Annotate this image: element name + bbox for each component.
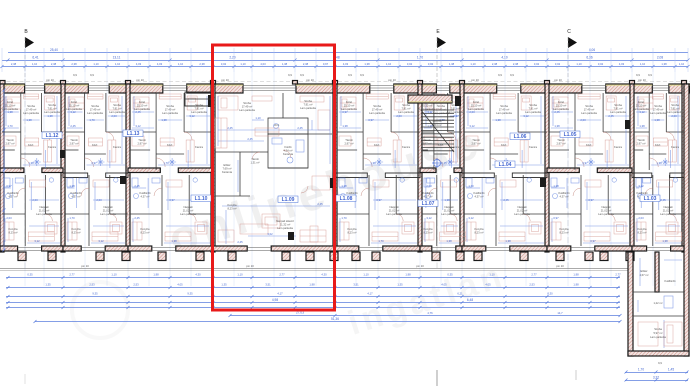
svg-text:Konyha: Konyha [347, 227, 357, 231]
svg-text:1,38: 1,38 [28, 161, 34, 165]
svg-text:9,9: 9,9 [300, 73, 304, 77]
svg-text:7,91 m²: 7,91 m² [670, 107, 679, 111]
svg-text:3,02: 3,02 [534, 62, 540, 66]
svg-text:Kerámia: Kerámia [222, 170, 233, 174]
svg-text:6,41: 6,41 [32, 56, 38, 60]
svg-text:2,08: 2,08 [657, 56, 663, 60]
unit interior 1 [84, 93, 86, 170]
svg-text:25,10 m²: 25,10 m² [556, 104, 567, 108]
svg-text:2,03: 2,03 [111, 114, 117, 118]
window opening [370, 86, 394, 91]
window opening [243, 86, 296, 91]
svg-text:1,98: 1,98 [405, 273, 411, 277]
svg-text:7,91 m²: 7,91 m² [47, 107, 56, 111]
wall segment [296, 84, 370, 93]
svg-text:Nappali: Nappali [103, 205, 113, 209]
svg-text:1,70: 1,70 [7, 124, 13, 128]
svg-text:Lam.parketta: Lam.parketta [581, 111, 597, 115]
svg-text:Lam.parketta: Lam.parketta [36, 212, 52, 216]
svg-text:Kamra: Kamra [671, 145, 679, 149]
svg-text:Lam.parketta: Lam.parketta [23, 111, 39, 115]
svg-text:Lam.parketta: Lam.parketta [87, 111, 103, 115]
svg-text:Lam.parketta: Lam.parketta [660, 212, 676, 216]
svg-text:9,35: 9,35 [187, 292, 193, 296]
svg-text:4,17: 4,17 [367, 292, 373, 296]
svg-text:4,05: 4,05 [177, 283, 183, 287]
svg-text:0,97: 0,97 [368, 118, 374, 122]
wall segment [606, 84, 653, 93]
svg-text:4,67 m²: 4,67 m² [639, 273, 648, 277]
bottom dimension rows [6, 277, 620, 279]
svg-text:Nappali: Nappali [39, 205, 49, 209]
svg-text:Konyha: Konyha [8, 227, 18, 231]
crop marks [436, 370, 438, 386]
svg-text:Kádfürdő: Kádfürdő [423, 191, 434, 195]
wall segment [394, 84, 437, 93]
svg-text:17,49 m²: 17,49 m² [165, 108, 176, 112]
svg-text:21,32 m²: 21,32 m² [280, 223, 291, 227]
svg-text:1,10: 1,10 [237, 273, 243, 277]
svg-text:8,23 m²: 8,23 m² [474, 231, 483, 235]
section marker B [24, 29, 34, 268]
svg-text:9,9: 9,9 [658, 361, 662, 365]
svg-text:2,97 m²: 2,97 m² [69, 142, 78, 146]
window opening [163, 86, 187, 91]
svg-text:1,10: 1,10 [111, 273, 117, 277]
svg-text:1,38: 1,38 [161, 118, 167, 122]
svg-text:Szoba: Szoba [27, 104, 35, 108]
svg-text:25,10 m²: 25,10 m² [5, 104, 16, 108]
svg-text:1,10: 1,10 [115, 62, 121, 66]
svg-text:2,45: 2,45 [134, 184, 140, 188]
middle spine walls [0, 168, 24, 173]
svg-text:9,9: 9,9 [648, 73, 652, 77]
svg-text:2,97 m²: 2,97 m² [344, 142, 353, 146]
svg-text:2,03: 2,03 [396, 114, 402, 118]
svg-text:3,02: 3,02 [428, 62, 434, 66]
wall segment [450, 84, 497, 93]
svg-text:4,30: 4,30 [321, 273, 327, 277]
svg-text:Közl.: Közl. [655, 143, 661, 147]
svg-text:Konyha: Konyha [474, 227, 484, 231]
svg-text:3,12: 3,12 [468, 216, 474, 220]
svg-text:2,45: 2,45 [70, 124, 76, 128]
svg-text:Tároló: Tároló [138, 138, 146, 142]
svg-text:Kádfürdő: Kádfürdő [347, 191, 358, 195]
svg-text:Lam.parketta: Lam.parketta [66, 107, 82, 111]
svg-text:3,02: 3,02 [267, 232, 273, 236]
svg-text:1,98: 1,98 [153, 273, 159, 277]
svg-text:pm 10: pm 10 [556, 264, 564, 268]
svg-text:3,12: 3,12 [426, 216, 432, 220]
svg-text:Lam.parketta: Lam.parketta [162, 111, 178, 115]
svg-text:7,91 m²: 7,91 m² [303, 103, 312, 107]
svg-text:2,53: 2,53 [133, 283, 139, 287]
svg-text:2,77: 2,77 [279, 273, 285, 277]
svg-text:1,38: 1,38 [554, 124, 560, 128]
svg-text:0,97: 0,97 [590, 239, 596, 243]
svg-text:Lam.parketta: Lam.parketta [633, 107, 649, 111]
svg-text:Lam.parketta: Lam.parketta [386, 212, 402, 216]
svg-text:0,97: 0,97 [6, 184, 12, 188]
svg-text:8,23 m²: 8,23 m² [140, 231, 149, 235]
section marker C [567, 29, 577, 268]
svg-text:Szoba: Szoba [166, 104, 174, 108]
svg-text:Fotel: Fotel [473, 100, 479, 104]
svg-text:2,38: 2,38 [303, 62, 309, 66]
window opening [25, 86, 45, 91]
svg-text:9,9: 9,9 [288, 73, 292, 77]
svg-text:Lam.parketta: Lam.parketta [239, 108, 255, 112]
svg-text:4,37 m²: 4,37 m² [140, 195, 149, 199]
svg-text:3,12: 3,12 [638, 184, 644, 188]
svg-text:2,38: 2,38 [51, 62, 57, 66]
svg-text:Szoba: Szoba [113, 103, 121, 107]
svg-text:3,02: 3,02 [221, 62, 227, 66]
svg-text:Szoba: Szoba [654, 327, 662, 331]
svg-text:Lam.parketta: Lam.parketta [398, 110, 414, 114]
svg-text:Szoba: Szoba [654, 104, 662, 108]
svg-text:2,38: 2,38 [492, 62, 498, 66]
svg-text:9,9: 9,9 [73, 73, 77, 77]
svg-text:Kamra: Kamra [614, 145, 622, 149]
svg-text:4,05: 4,05 [485, 283, 491, 287]
svg-text:2,77: 2,77 [69, 273, 75, 277]
svg-text:9,9: 9,9 [510, 73, 514, 77]
svg-text:1,38: 1,38 [282, 62, 288, 66]
svg-text:3,51: 3,51 [265, 283, 271, 287]
svg-text:3,02: 3,02 [407, 62, 413, 66]
entrance porch wall [408, 95, 452, 103]
svg-text:7,91 m²: 7,91 m² [613, 107, 622, 111]
svg-text:4,37 m²: 4,37 m² [71, 195, 80, 199]
svg-text:Konyha: Konyha [227, 203, 237, 207]
svg-text:L1.07: L1.07 [422, 201, 435, 207]
stairwell treads [421, 110, 454, 152]
svg-text:1,10: 1,10 [386, 62, 392, 66]
svg-text:14,7: 14,7 [557, 311, 563, 315]
svg-text:51,36: 51,36 [331, 317, 339, 321]
svg-text:1,45: 1,45 [668, 368, 674, 372]
svg-text:4,03: 4,03 [343, 62, 349, 66]
svg-text:1,38: 1,38 [342, 124, 348, 128]
svg-text:Lam.parketta: Lam.parketta [300, 106, 316, 110]
svg-text:Lam.parketta: Lam.parketta [610, 110, 626, 114]
svg-text:21,02 m²: 21,02 m² [183, 209, 194, 213]
svg-text:3,02: 3,02 [555, 62, 561, 66]
exterior wall bottom with openings [0, 246, 18, 251]
svg-text:3,12: 3,12 [469, 124, 475, 128]
svg-text:25,10 m²: 25,10 m² [636, 104, 647, 108]
svg-text:0,97: 0,97 [588, 198, 594, 202]
svg-text:0,35: 0,35 [447, 273, 453, 277]
svg-text:Közl.: Közl. [167, 143, 173, 147]
svg-text:2,45: 2,45 [247, 137, 253, 141]
unit L1.09 interior [282, 93, 284, 118]
svg-text:8,23 m²: 8,23 m² [637, 231, 646, 235]
svg-text:Konyha: Konyha [637, 227, 647, 231]
svg-text:1,38: 1,38 [656, 161, 662, 165]
svg-text:Lam.parketta: Lam.parketta [369, 111, 385, 115]
svg-text:Tároló: Tároló [423, 138, 431, 142]
svg-text:8,23 m²: 8,23 m² [423, 231, 432, 235]
svg-text:1,98: 1,98 [573, 283, 579, 287]
svg-text:21,02 m²: 21,02 m² [39, 209, 50, 213]
svg-text:6,36: 6,36 [586, 56, 592, 60]
svg-text:pm 10: pm 10 [246, 264, 254, 268]
red highlight rectangle [213, 45, 335, 310]
svg-text:2,97 m²: 2,97 m² [471, 142, 480, 146]
svg-text:7,91 m²: 7,91 m² [112, 107, 121, 111]
svg-text:8,23 m²: 8,23 m² [227, 207, 236, 211]
svg-text:pm 10: pm 10 [81, 264, 89, 268]
svg-text:L1.05: L1.05 [564, 132, 577, 138]
svg-text:1,10: 1,10 [470, 62, 476, 66]
svg-text:Lam.parketta: Lam.parketta [180, 212, 196, 216]
blue symbol [432, 158, 442, 168]
svg-text:Lam.parketta: Lam.parketta [468, 107, 484, 111]
svg-text:Szoba: Szoba [614, 103, 622, 107]
svg-text:4,37 m²: 4,37 m² [474, 195, 483, 199]
svg-text:1,10: 1,10 [93, 62, 99, 66]
svg-text:Lam.parketta: Lam.parketta [667, 110, 683, 114]
svg-text:L1.10: L1.10 [195, 196, 208, 202]
svg-text:2,45: 2,45 [441, 161, 447, 165]
svg-text:3,12: 3,12 [189, 114, 195, 118]
svg-text:2,38: 2,38 [513, 62, 519, 66]
svg-text:2,45: 2,45 [134, 216, 140, 220]
svg-text:1,35: 1,35 [45, 283, 51, 287]
svg-text:21,02 m²: 21,02 m² [601, 209, 612, 213]
svg-text:1,10: 1,10 [363, 273, 369, 277]
svg-text:L1.08: L1.08 [340, 196, 353, 202]
svg-text:2,03: 2,03 [32, 198, 38, 202]
svg-text:1,98: 1,98 [573, 273, 579, 277]
svg-text:Kádfürdő: Kádfürdő [140, 191, 151, 195]
svg-text:2,38: 2,38 [199, 62, 205, 66]
svg-text:8,23 m²: 8,23 m² [8, 231, 17, 235]
svg-text:Közl.: Közl. [586, 143, 592, 147]
svg-text:Szoba: Szoba [48, 103, 56, 107]
svg-text:Kerámia: Kerámia [283, 152, 294, 156]
svg-text:L1.09: L1.09 [282, 197, 295, 203]
svg-text:2,03: 2,03 [6, 216, 12, 220]
svg-text:2,45: 2,45 [317, 202, 323, 206]
svg-text:17,49 m²: 17,49 m² [90, 108, 101, 112]
svg-text:Lam.parketta: Lam.parketta [525, 110, 541, 114]
svg-text:1,10: 1,10 [679, 62, 685, 66]
svg-text:Kamra: Kamra [402, 145, 410, 149]
wing dimensions [625, 372, 688, 374]
svg-text:Szoba: Szoba [529, 103, 537, 107]
svg-text:1,10: 1,10 [32, 62, 38, 66]
svg-text:1,38: 1,38 [26, 118, 32, 122]
svg-text:17,49 m²: 17,49 m² [26, 108, 37, 112]
svg-text:Kamra: Kamra [195, 145, 203, 149]
svg-text:0,97: 0,97 [582, 161, 588, 165]
party walls [0, 84, 4, 252]
svg-text:7,04 m²: 7,04 m² [432, 123, 441, 127]
svg-text:17,49 m²: 17,49 m² [242, 105, 253, 109]
svg-text:Kamra: Kamra [529, 145, 537, 149]
svg-text:2,45: 2,45 [237, 240, 243, 244]
svg-text:25,10 m²: 25,10 m² [422, 104, 433, 108]
svg-text:2,03: 2,03 [671, 114, 677, 118]
unit interior 9 [648, 93, 650, 170]
svg-text:4,24 m²: 4,24 m² [283, 149, 292, 153]
svg-text:2,03: 2,03 [426, 184, 432, 188]
svg-text:3,12: 3,12 [34, 239, 40, 243]
svg-text:Kamra: Kamra [48, 145, 56, 149]
svg-text:1,10: 1,10 [255, 116, 261, 120]
svg-text:25,40: 25,40 [50, 48, 58, 52]
svg-text:3,12: 3,12 [523, 114, 529, 118]
svg-text:Nappali: Nappali [389, 205, 399, 209]
svg-text:1,38: 1,38 [639, 124, 645, 128]
svg-text:Lam.parketta: Lam.parketta [109, 110, 125, 114]
svg-text:Lam.parketta: Lam.parketta [341, 107, 357, 111]
unit interior 7 [489, 93, 491, 170]
window opening [88, 86, 109, 91]
svg-text:1,35: 1,35 [221, 283, 227, 287]
svg-text:2,97 m²: 2,97 m² [636, 142, 645, 146]
svg-text:Lam.parketta: Lam.parketta [191, 110, 207, 114]
svg-text:Konyha: Konyha [559, 227, 569, 231]
svg-text:1,38: 1,38 [446, 239, 452, 243]
window opening [652, 86, 669, 91]
svg-text:1,38: 1,38 [449, 62, 455, 66]
svg-text:1,70: 1,70 [378, 239, 384, 243]
svg-text:Fotel: Fotel [638, 100, 644, 104]
svg-text:Előtér: Előtér [640, 269, 647, 273]
svg-text:5,97 m²: 5,97 m² [653, 331, 662, 335]
svg-text:Konyha: Konyha [423, 227, 433, 231]
svg-text:2,03: 2,03 [638, 216, 644, 220]
watermark diagonal text [162, 115, 510, 343]
svg-text:9,9: 9,9 [360, 73, 364, 77]
svg-text:Kádfürdő: Kádfürdő [637, 191, 648, 195]
wall segment [669, 84, 690, 93]
svg-text:Fotel: Fotel [346, 100, 352, 104]
svg-text:1,38: 1,38 [553, 184, 559, 188]
svg-text:Tároló: Tároló [557, 138, 565, 142]
wall segment [0, 84, 25, 93]
svg-text:1,38: 1,38 [171, 239, 177, 243]
unit labels [42, 132, 62, 139]
svg-text:Lam.parketta: Lam.parketta [650, 111, 666, 115]
unit interior 2 [155, 93, 157, 170]
svg-text:1,22 m²: 1,22 m² [653, 301, 662, 305]
svg-text:1,70: 1,70 [468, 184, 474, 188]
svg-text:Közl.: Közl. [501, 143, 507, 147]
svg-text:Szoba: Szoba [585, 104, 593, 108]
svg-text:21,02 m²: 21,02 m² [517, 209, 528, 213]
svg-text:0,97: 0,97 [323, 62, 329, 66]
entrance recess [185, 92, 211, 106]
svg-text:21,02 m²: 21,02 m² [103, 209, 114, 213]
svg-text:Szoba: Szoba [304, 99, 312, 103]
svg-text:L1.13: L1.13 [127, 131, 140, 137]
svg-text:1,38: 1,38 [370, 161, 376, 165]
svg-text:1,38: 1,38 [495, 118, 501, 122]
svg-text:2,38: 2,38 [71, 62, 77, 66]
svg-text:25,10 m²: 25,10 m² [137, 104, 148, 108]
svg-text:1,10: 1,10 [489, 273, 495, 277]
svg-text:2,77: 2,77 [615, 273, 621, 277]
svg-text:Nappali: Nappali [444, 205, 454, 209]
svg-text:Kádfürdő: Kádfürdő [474, 191, 485, 195]
svg-text:2,03: 2,03 [580, 118, 586, 122]
svg-text:L1.04: L1.04 [499, 162, 512, 168]
svg-text:4,17: 4,17 [277, 292, 283, 296]
pilaster stubs [0, 81, 5, 85]
svg-text:Lépcső: Lépcső [433, 119, 442, 123]
svg-text:Kádfürdő: Kádfürdő [8, 191, 19, 195]
svg-text:25,10 m²: 25,10 m² [69, 104, 80, 108]
svg-text:Lam.parketta: Lam.parketta [100, 212, 116, 216]
svg-text:2,97 m²: 2,97 m² [5, 142, 14, 146]
svg-text:4,03: 4,03 [157, 62, 163, 66]
svg-text:Szoba: Szoba [91, 104, 99, 108]
svg-text:Nappali étkező: Nappali étkező [276, 219, 294, 223]
svg-text:2,45: 2,45 [503, 198, 509, 202]
window opening [436, 86, 449, 91]
svg-text:Lam.parketta: Lam.parketta [44, 110, 60, 114]
svg-text:21,02 m²: 21,02 m² [389, 209, 400, 213]
svg-text:3,51: 3,51 [353, 283, 359, 287]
svg-text:Fotel: Fotel [71, 100, 77, 104]
svg-text:0,97: 0,97 [376, 198, 382, 202]
svg-text:8,23 m²: 8,23 m² [347, 231, 356, 235]
window opening [582, 86, 606, 91]
svg-text:L1.03: L1.03 [644, 196, 657, 202]
svg-text:2,53: 2,53 [529, 283, 535, 287]
svg-text:Tároló: Tároló [6, 138, 14, 142]
svg-text:2,45: 2,45 [227, 126, 233, 130]
svg-text:1,10: 1,10 [640, 62, 646, 66]
svg-text:17,49 m²: 17,49 m² [499, 108, 510, 112]
svg-text:1,10: 1,10 [178, 62, 184, 66]
svg-text:L1.06: L1.06 [514, 134, 527, 140]
svg-text:17,49 m²: 17,49 m² [653, 108, 664, 112]
svg-text:2,53: 2,53 [89, 283, 95, 287]
svg-text:Közl.: Közl. [374, 143, 380, 147]
wall segment [45, 84, 89, 93]
svg-text:1,38: 1,38 [661, 62, 667, 66]
svg-text:Nappali: Nappali [601, 205, 611, 209]
wall segment [109, 84, 163, 93]
svg-text:6,21: 6,21 [457, 292, 463, 296]
svg-text:7,91 m²: 7,91 m² [194, 107, 203, 111]
svg-text:3,02: 3,02 [598, 62, 604, 66]
svg-text:Szoba: Szoba [500, 104, 508, 108]
left edge vertical dimension [3, 90, 5, 250]
svg-text:0,97: 0,97 [553, 216, 559, 220]
svg-text:4,05: 4,05 [441, 283, 447, 287]
svg-text:Szoba: Szoba [437, 104, 445, 108]
right exterior wall [684, 84, 689, 356]
svg-text:Tároló: Tároló [251, 157, 259, 161]
svg-text:13,11: 13,11 [113, 56, 121, 60]
svg-text:Nappali: Nappali [183, 205, 193, 209]
svg-text:Fürdő: Fürdő [284, 145, 292, 149]
svg-text:3,12: 3,12 [98, 239, 104, 243]
top dimension chain rows [1, 48, 690, 68]
shafts [208, 95, 213, 107]
svg-text:4,10: 4,10 [501, 56, 507, 60]
svg-text:2,03: 2,03 [96, 198, 102, 202]
svg-text:1,38: 1,38 [505, 239, 511, 243]
